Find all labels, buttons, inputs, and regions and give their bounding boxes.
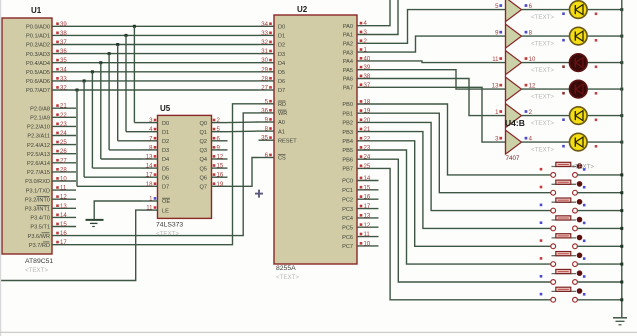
svg-text:PA0: PA0	[343, 24, 353, 30]
svg-text:PC2: PC2	[342, 197, 353, 203]
svg-text:P2.0/A8: P2.0/A8	[30, 106, 50, 112]
svg-text:P0.4/AD4: P0.4/AD4	[26, 61, 50, 67]
svg-text:20: 20	[364, 118, 371, 124]
svg-text:35: 35	[261, 136, 268, 142]
svg-text:PC7: PC7	[342, 244, 353, 250]
svg-text:38: 38	[364, 74, 371, 80]
svg-text:19: 19	[364, 109, 371, 115]
svg-text:15: 15	[60, 222, 67, 228]
svg-text:P3.2/INT0: P3.2/INT0	[25, 197, 50, 203]
svg-text:PB3: PB3	[342, 130, 353, 136]
svg-text:32: 32	[261, 40, 268, 46]
svg-text:P3.4/T0: P3.4/T0	[30, 216, 50, 222]
svg-text:12: 12	[529, 84, 536, 90]
svg-text:12: 12	[60, 195, 67, 201]
svg-text:P3.0/RXD: P3.0/RXD	[25, 179, 50, 185]
svg-text:25: 25	[364, 164, 371, 170]
svg-text:10: 10	[60, 177, 67, 183]
svg-text:28: 28	[60, 167, 67, 173]
svg-text:27: 27	[261, 86, 268, 92]
svg-text:Q1: Q1	[200, 130, 207, 136]
svg-text:7407: 7407	[506, 155, 521, 162]
svg-text:38: 38	[60, 31, 67, 37]
svg-text:<TEXT>: <TEXT>	[531, 67, 554, 74]
svg-text:D0: D0	[162, 121, 169, 127]
svg-text:Q3: Q3	[200, 148, 207, 154]
svg-text:P2.7/A15: P2.7/A15	[27, 170, 50, 176]
svg-text:U4:B: U4:B	[505, 118, 525, 128]
svg-text:Q0: Q0	[200, 121, 207, 127]
svg-text:<TEXT>: <TEXT>	[25, 267, 48, 274]
svg-text:40: 40	[364, 56, 371, 62]
svg-text:PA7: PA7	[343, 86, 353, 92]
svg-text:PB1: PB1	[342, 111, 353, 117]
svg-text:Q2: Q2	[200, 139, 207, 145]
svg-text:37: 37	[60, 40, 67, 46]
svg-text:PA3: PA3	[343, 50, 353, 56]
svg-text:Q4: Q4	[200, 157, 207, 163]
svg-text:17: 17	[60, 240, 67, 246]
svg-text:27: 27	[60, 158, 67, 164]
svg-text:16: 16	[217, 173, 224, 179]
svg-text:<TEXT>: <TEXT>	[531, 147, 554, 154]
svg-text:10: 10	[529, 57, 536, 63]
svg-text:16: 16	[60, 231, 67, 237]
svg-text:17: 17	[146, 173, 153, 179]
svg-text:P3.7/RD: P3.7/RD	[29, 243, 50, 249]
svg-text:WR: WR	[278, 111, 287, 117]
svg-text:P2.3/A11: P2.3/A11	[27, 134, 50, 140]
svg-text:U5: U5	[160, 104, 171, 113]
svg-text:15: 15	[364, 185, 371, 191]
svg-text:34: 34	[261, 22, 268, 28]
svg-text:A1: A1	[278, 129, 285, 135]
svg-text:39: 39	[364, 65, 371, 71]
svg-text:P2.2/A10: P2.2/A10	[27, 125, 50, 131]
svg-text:D6: D6	[278, 79, 285, 85]
svg-text:PC5: PC5	[342, 225, 353, 231]
svg-text:U1: U1	[31, 6, 42, 15]
svg-text:Q6: Q6	[200, 175, 207, 181]
svg-text:P2.5/A13: P2.5/A13	[27, 152, 50, 158]
svg-text:PB6: PB6	[342, 157, 353, 163]
svg-text:P3.1/TXD: P3.1/TXD	[26, 188, 50, 194]
svg-text:17: 17	[364, 204, 371, 210]
svg-text:Q7: Q7	[200, 185, 207, 191]
svg-text:P3.6/WR: P3.6/WR	[28, 234, 50, 240]
svg-text:14: 14	[364, 176, 371, 182]
svg-text:PC1: PC1	[342, 188, 353, 194]
svg-text:<TEXT>: <TEXT>	[531, 14, 554, 21]
svg-text:11: 11	[364, 232, 371, 238]
svg-text:P3.5/T1: P3.5/T1	[30, 225, 50, 231]
svg-text:D2: D2	[278, 43, 285, 49]
svg-text:D1: D1	[278, 34, 285, 40]
svg-text:33: 33	[60, 76, 67, 82]
svg-text:32: 32	[60, 86, 67, 92]
svg-text:25: 25	[60, 140, 67, 146]
svg-text:21: 21	[60, 104, 67, 110]
svg-text:14: 14	[146, 164, 153, 170]
svg-text:<TEXT>: <TEXT>	[531, 120, 554, 127]
svg-text:28: 28	[261, 76, 268, 82]
svg-text:39: 39	[60, 22, 67, 28]
svg-text:74LS373: 74LS373	[156, 222, 183, 229]
svg-text:U2: U2	[297, 5, 308, 14]
svg-text:PC4: PC4	[342, 216, 353, 222]
svg-text:10: 10	[364, 241, 371, 247]
svg-text:P0.2/AD2: P0.2/AD2	[26, 43, 50, 49]
svg-text:37: 37	[364, 83, 371, 89]
svg-text:OE: OE	[162, 199, 170, 205]
svg-text:D5: D5	[162, 166, 169, 172]
svg-text:P0.7/AD7: P0.7/AD7	[26, 88, 50, 94]
svg-text:D3: D3	[278, 52, 285, 58]
svg-text:24: 24	[60, 131, 67, 137]
svg-text:12: 12	[364, 223, 371, 229]
svg-text:PA1: PA1	[343, 33, 353, 39]
svg-text:P0.3/AD3: P0.3/AD3	[26, 52, 50, 58]
svg-text:15: 15	[217, 164, 224, 170]
svg-text:PC3: PC3	[342, 207, 353, 213]
svg-text:<TEXT>: <TEXT>	[276, 274, 299, 281]
svg-text:P3.3/INT1: P3.3/INT1	[25, 207, 50, 213]
svg-text:PB5: PB5	[342, 148, 353, 154]
svg-text:AT89C51: AT89C51	[25, 258, 53, 265]
svg-text:23: 23	[364, 146, 371, 152]
svg-text:16: 16	[364, 195, 371, 201]
svg-text:D4: D4	[278, 61, 285, 67]
svg-text:P0.1/AD1: P0.1/AD1	[26, 34, 50, 40]
svg-text:PA5: PA5	[343, 68, 353, 74]
svg-text:P2.1/A9: P2.1/A9	[30, 116, 50, 122]
svg-text:P0.0/AD0: P0.0/AD0	[26, 25, 50, 31]
svg-text:23: 23	[60, 122, 67, 128]
svg-text:19: 19	[217, 182, 224, 188]
svg-text:PB2: PB2	[342, 121, 353, 127]
svg-text:13: 13	[60, 204, 67, 210]
svg-text:11: 11	[492, 57, 499, 63]
svg-text:<TEXT>: <TEXT>	[571, 164, 594, 171]
svg-text:CS: CS	[278, 156, 286, 162]
svg-text:P0.6/AD6: P0.6/AD6	[26, 79, 50, 85]
svg-text:P2.6/A14: P2.6/A14	[27, 161, 50, 167]
svg-text:11: 11	[60, 186, 67, 192]
svg-text:RESET: RESET	[278, 138, 297, 144]
svg-text:PB4: PB4	[342, 139, 353, 145]
svg-text:PC6: PC6	[342, 235, 353, 241]
svg-text:LE: LE	[162, 208, 169, 214]
svg-text:36: 36	[261, 108, 268, 114]
svg-text:26: 26	[60, 149, 67, 155]
svg-text:PA2: PA2	[343, 42, 353, 48]
svg-text:34: 34	[60, 67, 67, 73]
svg-text:PB0: PB0	[342, 102, 353, 108]
svg-text:31: 31	[261, 49, 268, 55]
svg-text:33: 33	[261, 31, 268, 37]
svg-text:30: 30	[261, 58, 268, 64]
svg-text:Q5: Q5	[200, 166, 207, 172]
svg-text:D3: D3	[162, 148, 169, 154]
svg-text:PA6: PA6	[343, 77, 353, 83]
svg-text:<TEXT>: <TEXT>	[531, 94, 554, 101]
svg-text:RD: RD	[278, 102, 286, 108]
svg-text:12: 12	[217, 155, 224, 161]
svg-text:P0.5/AD5: P0.5/AD5	[26, 70, 50, 76]
svg-text:11: 11	[146, 206, 153, 212]
svg-text:35: 35	[60, 58, 67, 64]
svg-text:21: 21	[364, 127, 371, 133]
svg-text:D1: D1	[162, 130, 169, 136]
svg-text:22: 22	[60, 113, 67, 119]
svg-text:22: 22	[364, 136, 371, 142]
svg-text:18: 18	[146, 182, 153, 188]
svg-text:PC0: PC0	[342, 179, 353, 185]
svg-text:D0: D0	[278, 25, 285, 31]
svg-text:PA4: PA4	[343, 59, 353, 65]
svg-text:P2.4/A12: P2.4/A12	[27, 143, 50, 149]
svg-text:D2: D2	[162, 139, 169, 145]
svg-text:<TEXT>: <TEXT>	[531, 41, 554, 48]
svg-text:D7: D7	[162, 185, 169, 191]
svg-text:A0: A0	[278, 120, 285, 126]
svg-text:D4: D4	[162, 157, 169, 163]
svg-text:13: 13	[364, 213, 371, 219]
svg-text:29: 29	[261, 67, 268, 73]
svg-text:14: 14	[60, 213, 67, 219]
svg-text:PB7: PB7	[342, 167, 353, 173]
svg-text:24: 24	[364, 155, 371, 161]
svg-text:D5: D5	[278, 70, 285, 76]
svg-text:13: 13	[492, 84, 499, 90]
svg-text:18: 18	[364, 100, 371, 106]
svg-text:36: 36	[60, 49, 67, 55]
svg-text:8255A: 8255A	[276, 265, 296, 272]
svg-text:D7: D7	[278, 88, 285, 94]
svg-text:D6: D6	[162, 175, 169, 181]
svg-text:<TEXT>: <TEXT>	[156, 231, 179, 238]
svg-text:13: 13	[146, 155, 153, 161]
